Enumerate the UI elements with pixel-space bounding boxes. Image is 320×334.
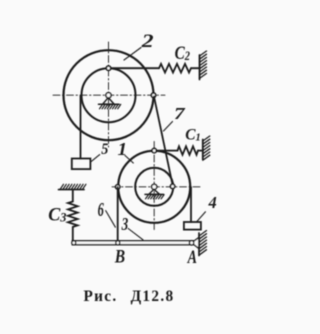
svg-text:4: 4 [208, 193, 217, 212]
svg-text:1: 1 [118, 140, 128, 159]
svg-text:B: B [114, 246, 125, 267]
svg-text:3: 3 [121, 215, 129, 234]
svg-text:5: 5 [101, 142, 109, 159]
svg-text:6: 6 [98, 198, 105, 221]
svg-text:A: A [187, 246, 197, 267]
svg-text:7: 7 [174, 105, 186, 124]
svg-text:Рис. Д12.8: Рис. Д12.8 [84, 288, 175, 305]
svg-text:2: 2 [141, 30, 154, 51]
